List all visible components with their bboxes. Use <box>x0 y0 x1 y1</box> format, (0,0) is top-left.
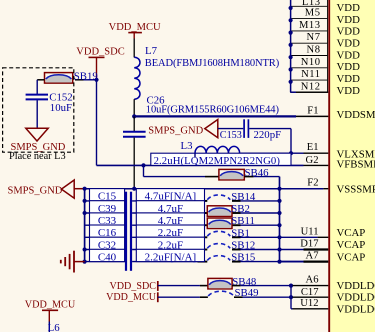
wire <box>198 261 208 263</box>
wire <box>198 200 208 202</box>
svg-text:SB12: SB12 <box>231 240 255 252</box>
svg-text:VSSSMPS: VSSSMPS <box>337 184 375 196</box>
node junction <box>277 260 281 264</box>
svg-text:VDD: VDD <box>337 26 361 38</box>
IC U1 MCU body <box>330 0 375 332</box>
pin F2 <box>280 188 324 190</box>
svg-text:SB19: SB19 <box>74 70 98 82</box>
label C39 box <box>90 201 125 213</box>
wire <box>232 224 241 226</box>
wire <box>85 261 125 263</box>
wire <box>144 176 206 178</box>
wire <box>218 128 244 130</box>
wire <box>85 200 125 202</box>
node junction <box>141 163 145 167</box>
svg-text:SMPS_GND: SMPS_GND <box>8 185 63 196</box>
svg-text:N8: N8 <box>307 45 321 56</box>
node junction <box>289 284 293 288</box>
wire <box>241 212 280 214</box>
node junction <box>132 187 136 191</box>
node junction <box>289 30 293 34</box>
node junction <box>277 247 281 251</box>
svg-text:N12: N12 <box>301 81 321 92</box>
wire <box>84 79 97 81</box>
svg-text:VDDLDO2: VDDLDO2 <box>337 292 375 304</box>
node junction <box>289 18 293 22</box>
svg-text:SB2: SB2 <box>231 203 250 215</box>
wire <box>198 249 208 251</box>
wire <box>96 80 98 166</box>
svg-text:M13: M13 <box>299 20 321 31</box>
inductor L7 <box>134 57 140 99</box>
wire <box>241 261 280 263</box>
node F1 junction <box>132 114 136 118</box>
wire <box>133 39 135 58</box>
svg-text:VDD: VDD <box>337 85 361 97</box>
wire <box>36 80 38 94</box>
solder bridge SB48 <box>208 278 232 289</box>
wire <box>85 236 125 238</box>
svg-text:Place near L3: Place near L3 <box>9 151 66 162</box>
svg-text:2.2uF[N/A]: 2.2uF[N/A] <box>145 251 197 263</box>
wire <box>241 224 280 226</box>
wire <box>158 285 200 287</box>
svg-text:SB1: SB1 <box>231 227 250 239</box>
wire <box>85 188 280 190</box>
wire <box>241 200 280 202</box>
svg-text:L6: L6 <box>48 322 61 332</box>
pin A7 <box>280 261 304 263</box>
svg-text:C153: C153 <box>220 130 242 141</box>
svg-text:VCAP: VCAP <box>337 227 366 239</box>
svg-text:VDD: VDD <box>337 2 361 14</box>
node junction <box>94 78 98 82</box>
wire <box>232 285 241 287</box>
svg-text:N11: N11 <box>301 69 320 80</box>
svg-text:M5: M5 <box>305 8 321 19</box>
solder bridge SB2 <box>207 206 232 217</box>
label C40 value box <box>136 249 204 261</box>
wire <box>200 296 208 298</box>
capacitor C152 <box>26 94 48 96</box>
svg-text:C17: C17 <box>301 287 319 298</box>
ground SMPS_GND symbol <box>26 128 48 141</box>
wire <box>132 249 206 251</box>
pin E1 <box>291 152 304 154</box>
wire <box>290 129 292 154</box>
node junction <box>289 6 293 10</box>
wire <box>249 128 291 130</box>
capacitor C26 <box>133 116 135 131</box>
wire <box>134 115 296 117</box>
wire <box>132 212 206 214</box>
wire <box>291 67 328 69</box>
svg-text:E1: E1 <box>307 142 319 153</box>
wire <box>36 100 38 128</box>
wire <box>200 285 208 287</box>
node junction <box>277 223 281 227</box>
node junction <box>289 295 293 299</box>
power SMPS_GND arrow <box>61 180 74 198</box>
wire <box>254 176 280 178</box>
wire <box>85 249 125 251</box>
svg-text:VDD: VDD <box>337 61 361 73</box>
svg-text:220pF: 220pF <box>254 129 282 141</box>
node junction <box>83 187 87 191</box>
node junction <box>83 211 87 215</box>
svg-text:VDD: VDD <box>337 14 361 26</box>
svg-text:VDD: VDD <box>337 73 361 85</box>
wire <box>198 224 208 226</box>
svg-text:VCAP: VCAP <box>337 239 366 251</box>
wire <box>232 236 241 238</box>
wire <box>296 91 328 93</box>
solder bridge SB12 <box>207 244 230 249</box>
pin F1 <box>296 115 328 117</box>
svg-text:SB14: SB14 <box>231 191 256 203</box>
solder bridge SB49 <box>208 291 234 296</box>
wire <box>290 286 292 309</box>
label C39 value box <box>136 201 204 213</box>
solder bridge SB11 <box>207 218 232 229</box>
pin C17 <box>291 296 293 298</box>
solder bridge SB19 <box>45 73 73 84</box>
wire <box>291 79 328 81</box>
capacitor stack C15 C39 C33 C16 C32 C40 plates <box>125 192 127 271</box>
label C16 value box <box>136 225 204 237</box>
wire <box>241 285 291 287</box>
svg-text:VDD_SDC: VDD_SDC <box>76 47 124 58</box>
inductor L3 <box>195 146 240 153</box>
wire <box>132 200 206 202</box>
svg-text:A6: A6 <box>306 274 319 285</box>
wire <box>244 176 253 178</box>
note dashed box <box>3 68 74 152</box>
wire <box>232 249 241 251</box>
pin U11 <box>280 236 318 238</box>
pin G2 <box>304 164 329 166</box>
wire <box>328 0 330 332</box>
wire <box>132 236 206 238</box>
label C32 box <box>90 237 125 249</box>
svg-text:VDDLDO1: VDDLDO1 <box>337 280 375 292</box>
node junction <box>289 67 293 71</box>
wire <box>234 296 243 298</box>
svg-text:VDDSMPS: VDDSMPS <box>337 109 375 121</box>
label C15 value box <box>136 189 204 201</box>
wire <box>74 188 84 190</box>
wire <box>37 79 44 81</box>
wire <box>240 152 291 154</box>
wire <box>198 212 208 214</box>
node junction <box>277 211 281 215</box>
svg-text:VDDLDO3: VDDLDO3 <box>337 303 375 315</box>
wire <box>291 30 328 32</box>
ground <box>60 260 62 264</box>
pin D17 <box>280 249 304 251</box>
wire <box>85 212 125 214</box>
wire <box>290 0 292 92</box>
svg-text:VDD_MCU: VDD_MCU <box>25 299 76 310</box>
wire <box>75 79 84 81</box>
pin A6 <box>291 285 293 287</box>
node E1 junction <box>289 151 293 155</box>
node junction <box>277 235 281 239</box>
node junction <box>83 247 87 251</box>
svg-text:C40: C40 <box>98 251 117 263</box>
svg-text:A7: A7 <box>306 250 319 261</box>
node junction <box>83 199 87 203</box>
wire <box>291 5 328 7</box>
svg-text:L3: L3 <box>181 140 193 152</box>
node junction <box>83 260 87 264</box>
label C33 value box <box>136 213 204 225</box>
node VDD pin box column <box>291 0 328 92</box>
wire <box>241 249 280 251</box>
label C15 box <box>90 189 125 201</box>
svg-text:10uF: 10uF <box>50 102 72 114</box>
wire <box>291 55 328 57</box>
svg-text:F1: F1 <box>307 105 318 116</box>
wire <box>74 261 85 263</box>
wire <box>232 261 241 263</box>
wire <box>132 224 206 226</box>
svg-text:2.2uH(LQM2MPN2R2NG0): 2.2uH(LQM2MPN2R2NG0) <box>154 155 281 167</box>
svg-text:D17: D17 <box>300 239 318 250</box>
svg-text:SMPS_GND: SMPS_GND <box>148 126 203 137</box>
wire <box>232 200 241 202</box>
svg-text:VDD: VDD <box>337 49 361 61</box>
wire <box>198 236 208 238</box>
svg-text:10uF(GRM155R60G106ME44): 10uF(GRM155R60G106ME44) <box>146 105 280 116</box>
wire <box>84 189 86 262</box>
svg-text:N10: N10 <box>301 57 321 68</box>
svg-text:VFBSMPS: VFBSMPS <box>337 159 375 171</box>
wire <box>85 224 125 226</box>
wire <box>232 212 241 214</box>
svg-text:N7: N7 <box>307 32 321 43</box>
node junction <box>277 199 281 203</box>
svg-text:VDD_MCU: VDD_MCU <box>109 22 161 33</box>
inductor L6 <box>48 322 50 332</box>
wire <box>132 261 206 263</box>
solder bridge SB1 <box>207 231 230 236</box>
svg-text:U12: U12 <box>300 298 318 309</box>
wire <box>241 236 280 238</box>
solder bridge SB46 <box>219 169 244 180</box>
node junction <box>277 187 281 191</box>
label L3 value box <box>151 153 291 165</box>
wire <box>143 165 145 176</box>
capacitor C153 <box>243 119 245 138</box>
label C16 box <box>90 225 125 237</box>
node junction <box>289 55 293 59</box>
wire <box>291 18 328 20</box>
wire <box>97 164 304 166</box>
svg-text:VCAP: VCAP <box>337 251 366 263</box>
wire <box>291 91 296 93</box>
wire <box>133 99 135 116</box>
svg-text:U11: U11 <box>301 226 319 237</box>
wire <box>279 177 281 262</box>
pin U12 <box>291 308 293 310</box>
svg-text:L7: L7 <box>145 45 158 57</box>
label C32 value box <box>136 237 204 249</box>
wire <box>158 296 200 298</box>
svg-text:SB15: SB15 <box>231 252 255 264</box>
solder bridge SB14 <box>207 195 230 200</box>
node junction <box>289 80 293 84</box>
wire <box>291 42 328 44</box>
svg-text:VDD_MCU: VDD_MCU <box>106 292 157 303</box>
solder bridge SB15 <box>207 256 230 261</box>
svg-text:F2: F2 <box>307 178 318 189</box>
svg-text:VDD: VDD <box>337 37 361 49</box>
svg-text:SB11: SB11 <box>231 215 255 227</box>
wire <box>194 153 196 157</box>
label C33 box <box>90 213 125 225</box>
power SMPS_GND arrow <box>205 120 218 138</box>
svg-text:BEAD(FBMJ1608HM180NTR): BEAD(FBMJ1608HM180NTR) <box>145 58 280 69</box>
svg-text:G2: G2 <box>306 155 319 166</box>
label C40 box <box>90 249 125 261</box>
wire <box>243 296 292 298</box>
svg-text:VDD_SDC: VDD_SDC <box>109 281 156 292</box>
node junction <box>289 43 293 47</box>
